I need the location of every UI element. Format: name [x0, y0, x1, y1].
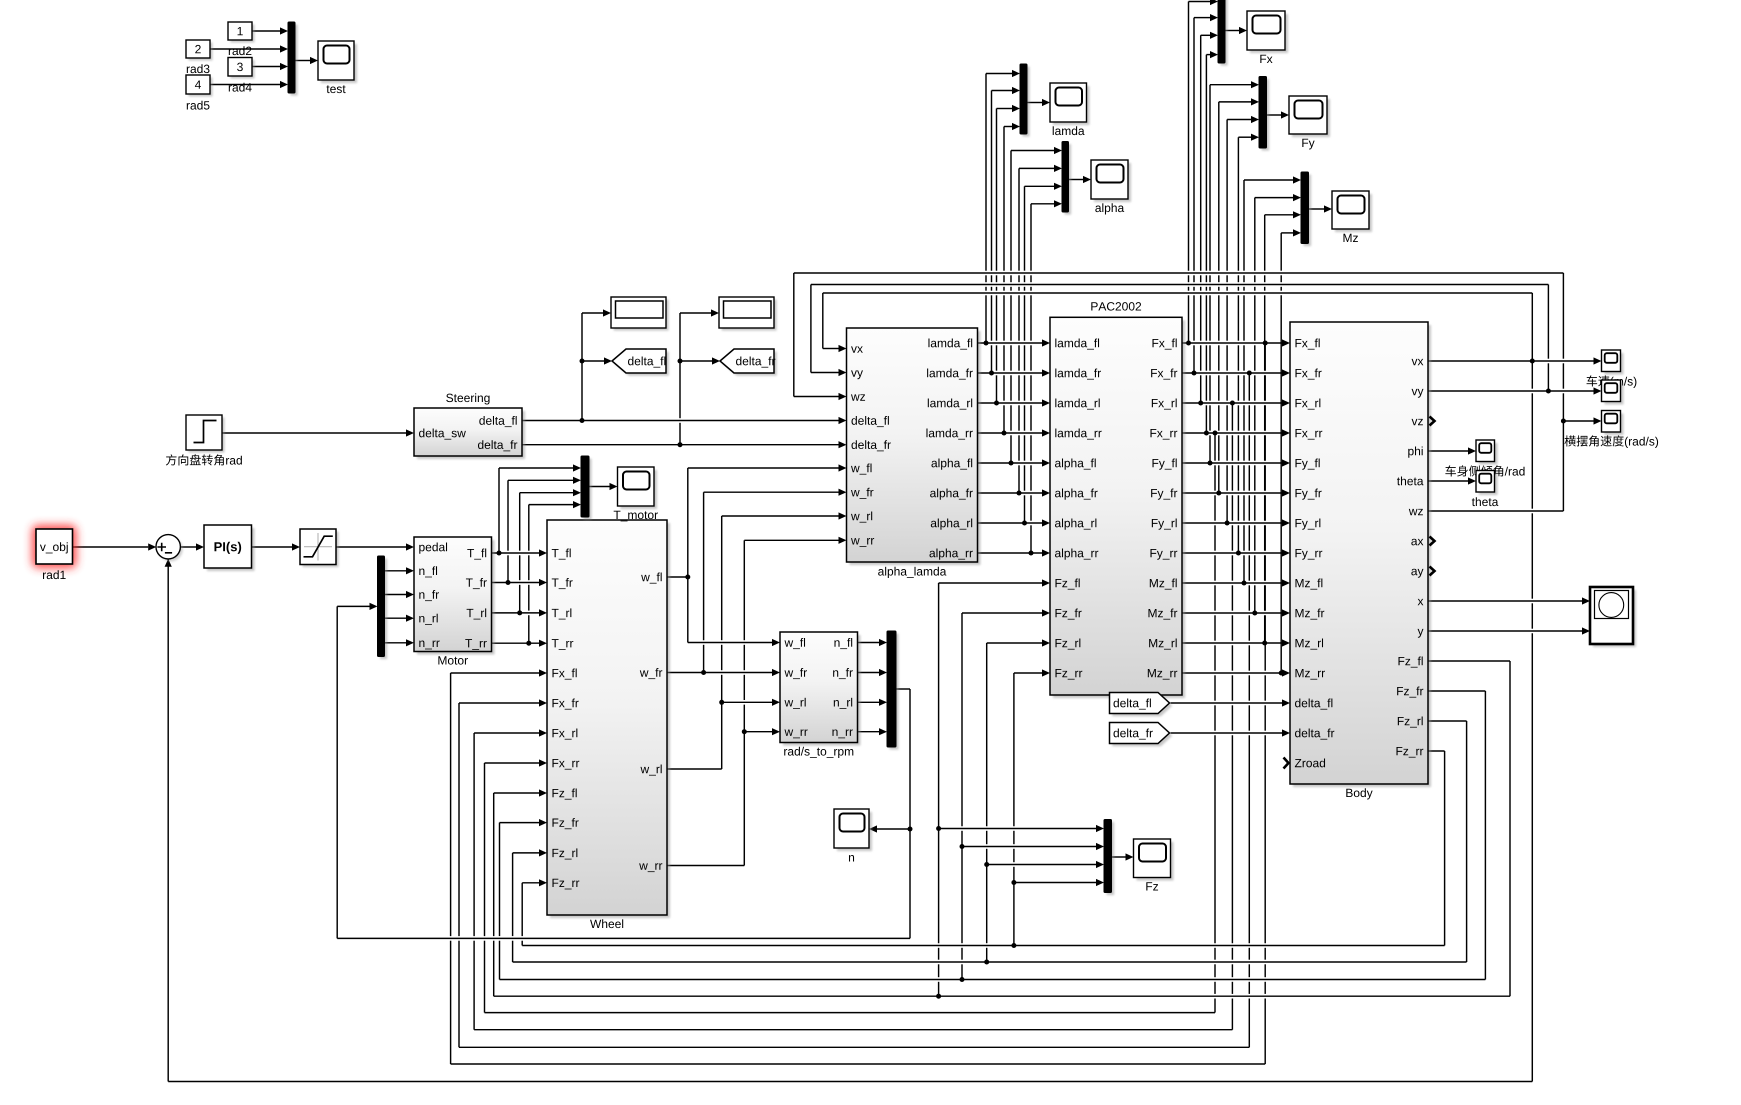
scope n: [834, 809, 872, 862]
wire Body.x -> XY Graph input 1: [1428, 597, 1590, 604]
wire Mux test -> Scope test: [295, 57, 318, 64]
wire net Fx_fl: PAC2002.Fx_fl -> Body.Fx_fl / Mux Fx / Wheel.Fx_fl: [451, 0, 1290, 1064]
scope Mz: [1332, 191, 1372, 242]
wire net wz: Body.wz -> Scope yaw rate / alpha_lamda.wz: [794, 273, 1602, 511]
label 横摆角速度(rad/s) for yaw-rate scope: [1564, 435, 1658, 448]
wire net lamda_fr: alpha_lamda.lamda_fr -> PAC2002.lamda_fr / Mux lamda: [978, 87, 1051, 377]
mux Fy: [1259, 77, 1269, 151]
saturation block: [300, 529, 339, 567]
wire Sum -> PI(s): [180, 543, 204, 550]
wire net lamda_rl: alpha_lamda.lamda_rl -> PAC2002.lamda_rl / Mux lamda: [978, 105, 1051, 407]
wire net w_rr: Wheel.w_rr -> alpha_lamda.w_rr / rad/s_to_rpm.w_rr: [667, 537, 847, 866]
wire net n: Mux rpm -> Scope n / Demux (Motor speed feedback): [337, 603, 912, 939]
wire Constant rad5 (4) -> Mux test input 4: [210, 81, 288, 88]
wire Constant v_obj -> Sum: [73, 543, 157, 550]
mux Mz: [1301, 172, 1311, 246]
subsystem Body: [1290, 322, 1431, 799]
unconnected output port marker vz: [1430, 417, 1435, 426]
display block (delta_fr): [719, 297, 777, 331]
wire net w_fl: Wheel.w_fl -> alpha_lamda.w_fl / rad/s_to_rpm.w_fl: [667, 464, 847, 646]
wire net vx: Body.vx -> Scope vx / alpha_lamda.vx / Sum (speed feedback): [165, 293, 1602, 1082]
wire net Fz_fl: Body.Fz_fl -> Wheel.Fz_fl / PAC2002.Fz_fl / Mux Fz: [494, 579, 1510, 998]
scope vx (speed m/s): [1602, 350, 1624, 375]
mux Fx: [1218, 0, 1228, 66]
wire rad/s_to_rpm.n_fl -> Mux rpm: [858, 639, 888, 646]
subsystem Motor: [414, 537, 495, 665]
wire Mux Fy -> Scope Fy: [1267, 111, 1290, 118]
wire net alpha_fl: alpha_lamda.alpha_fl -> PAC2002.alpha_fl / Mux alpha: [978, 147, 1063, 467]
wire Body.phi -> Scope roll angle: [1428, 447, 1476, 454]
wire net alpha_rr: alpha_lamda.alpha_rr -> PAC2002.alpha_rr / Mux alpha: [978, 200, 1063, 556]
wire net lamda_rr: alpha_lamda.lamda_rr -> PAC2002.lamda_rr / Mux lamda: [978, 123, 1051, 437]
mux Fz: [1104, 820, 1114, 896]
wire net T_fr: Motor.T_fr -> Wheel.T_fr / Mux T_motor: [492, 477, 582, 586]
wire net Fx_fr: PAC2002.Fx_fr -> Body.Fx_fr / Mux Fx / Wheel.Fx_fr: [459, 14, 1290, 1047]
wire Constant rad2 (1) -> Mux test input 1: [252, 27, 288, 34]
wire Body.y -> XY Graph input 2: [1428, 627, 1590, 634]
wire Mux lamda -> Scope lamda: [1027, 99, 1050, 106]
scope phi (roll angle): [1476, 440, 1498, 465]
wire net Fx_rl: PAC2002.Fx_rl -> Body.Fx_rl / Mux Fx / Wheel.Fx_rl: [474, 32, 1290, 1030]
wire rad/s_to_rpm.n_fr -> Mux rpm: [858, 669, 888, 676]
mux test: [288, 22, 298, 96]
scope wz (yaw rate): [1602, 411, 1624, 436]
mux T_motor: [581, 456, 592, 520]
scope lamda: [1050, 83, 1090, 135]
wire net Mz_fr: PAC2002.Mz_fr -> Body.Mz_fr / Mux Mz: [1182, 194, 1301, 617]
from tag delta_fl: [1110, 693, 1173, 717]
wire net w_fr: Wheel.w_fr -> alpha_lamda.w_fr / rad/s_to_rpm.w_fr: [667, 489, 847, 676]
subsystem Wheel: [547, 520, 670, 928]
wire Demux out 2 -> Motor.n_fr: [385, 591, 415, 598]
wire PI(s) -> Saturation: [252, 543, 301, 550]
scope theta: [1476, 471, 1498, 496]
wire net alpha_fr: alpha_lamda.alpha_fr -> PAC2002.alpha_fr / Mux alpha: [978, 165, 1063, 497]
scope Fx: [1247, 11, 1288, 63]
label theta: [1472, 497, 1499, 506]
mux Demux motor n: [378, 556, 388, 659]
wire net w_rl: Wheel.w_rl -> alpha_lamda.w_rl / rad/s_to_rpm.w_rl: [667, 512, 847, 769]
wire net Mz_rl: PAC2002.Mz_rl -> Body.Mz_rl / Mux Mz: [1182, 211, 1301, 646]
wire Mux T_motor -> Scope T_motor: [589, 483, 618, 490]
unconnected input port marker Zroad: [1284, 758, 1289, 769]
wire net delta_fr: Steering.delta_fr -> alpha_lamda.delta_fr, Display2, Goto delta_fr: [522, 309, 847, 448]
mux alpha: [1062, 142, 1071, 215]
wire Constant rad4 (3) -> Mux test input 3: [252, 63, 288, 70]
wire Mux alpha -> Scope alpha: [1069, 176, 1092, 183]
goto tag delta_fl: [612, 349, 669, 376]
display block (delta_fl): [611, 297, 669, 331]
wire Body.theta -> Scope theta: [1428, 477, 1476, 484]
constant block rad5 (value 4): [186, 75, 213, 110]
wire net Fx_rr: PAC2002.Fx_rr -> Body.Fx_rr / Mux Fx / Wheel.Fx_rr: [485, 51, 1291, 1013]
PI(s) controller block: [204, 525, 255, 571]
mux rpm n: [887, 631, 899, 750]
wire net Fy_fl: PAC2002.Fy_fl -> Body.Fy_fl / Mux Fy: [1182, 81, 1290, 467]
constant block rad1 (v_obj), selected with red glow: [32, 525, 77, 579]
sum block (+/-): [156, 535, 183, 562]
wire Demux out 3 -> Motor.n_rl: [385, 615, 415, 622]
wire net T_rl: Motor.T_rl -> Wheel.T_rl / Mux T_motor: [492, 489, 582, 616]
subsystem alpha_lamda: [847, 328, 981, 578]
mux lamda: [1020, 64, 1030, 137]
wire Mux Mz -> Scope Mz: [1309, 205, 1333, 212]
wire net vy: Body.vy -> Scope vy / alpha_lamda.vy: [811, 285, 1602, 395]
unconnected output port marker ax: [1430, 537, 1435, 546]
scope alpha: [1091, 160, 1131, 214]
scope Fz: [1134, 839, 1174, 891]
wire Constant rad3 (2) -> Mux test input 2: [210, 45, 288, 52]
wire net T_rr: Motor.T_rr -> Wheel.T_rr / Mux T_motor: [492, 501, 582, 647]
wire Mux Fz -> Scope Fz: [1112, 853, 1134, 860]
wire rad/s_to_rpm.n_rr -> Mux rpm: [858, 728, 888, 735]
subsystem PAC2002: [1050, 302, 1185, 698]
constant block rad3 (value 2): [186, 40, 213, 73]
wire Saturation -> Motor.pedal: [336, 543, 414, 550]
wire net delta_fl: Steering.delta_fl -> alpha_lamda.delta_fl, Display1, Goto delta_fl: [522, 309, 847, 424]
wire From delta_fl -> Body.delta_fl: [1171, 699, 1291, 706]
wire net Fy_fr: PAC2002.Fy_fr -> Body.Fy_fr / Mux Fy: [1182, 98, 1290, 496]
wire net Fz_rl: Body.Fz_rl -> Wheel.Fz_rl / PAC2002.Fz_rl / Mux Fz: [513, 639, 1467, 964]
wire rad/s_to_rpm.n_rl -> Mux rpm: [858, 699, 888, 706]
wire net Mz_fl: PAC2002.Mz_fl -> Body.Mz_fl / Mux Mz: [1182, 176, 1301, 586]
unconnected output port marker ay: [1430, 567, 1435, 576]
label 车身侧倾角/rad for roll scope: [1445, 465, 1524, 476]
wire From delta_fr -> Body.delta_fr: [1171, 729, 1291, 736]
wire net Fz_rr: Body.Fz_rr -> Wheel.Fz_rr / PAC2002.Fz_rr / Mux Fz: [522, 669, 1444, 948]
constant block rad4 (value 3): [228, 58, 255, 92]
wire Mux Fx -> Scope Fx: [1225, 27, 1247, 34]
wire net T_fl: Motor.T_fl -> Wheel.T_fl / Mux T_motor: [492, 464, 582, 556]
XY Graph block: [1590, 587, 1636, 647]
wire net alpha_rl: alpha_lamda.alpha_rl -> PAC2002.alpha_rl / Mux alpha: [978, 183, 1063, 527]
wire net Fy_rr: PAC2002.Fy_rr -> Body.Fy_rr / Mux Fy: [1182, 134, 1290, 557]
scope Fy: [1289, 96, 1330, 149]
wire Demux out 1 -> Motor.n_fl: [385, 567, 415, 574]
wire net Mz_rr: PAC2002.Mz_rr -> Body.Mz_rr / Mux Mz: [1182, 229, 1301, 676]
scope T_motor: [614, 467, 658, 521]
wire net lamda_fl: alpha_lamda.lamda_fl -> PAC2002.lamda_fl / Mux lamda: [978, 70, 1051, 347]
from tag delta_fr: [1110, 723, 1173, 747]
wire net Fz_fr: Body.Fz_fr -> Wheel.Fz_fr / PAC2002.Fz_fr / Mux Fz: [500, 609, 1486, 982]
wire net Fy_rl: PAC2002.Fy_rl -> Body.Fy_rl / Mux Fy: [1182, 116, 1290, 527]
subsystem Steering: [414, 393, 525, 459]
step source block 方向盘转角rad: [186, 415, 225, 453]
scope test: [318, 41, 357, 93]
goto tag delta_fr: [720, 349, 777, 376]
constant block rad2 (value 1): [228, 22, 255, 55]
wire Step -> Steering.delta_sw: [222, 429, 414, 436]
label 车速(m/s) for scope vx: [1587, 375, 1637, 388]
subsystem rad/s_to_rpm: [780, 632, 861, 758]
wire Demux out 4 -> Motor.n_rr: [385, 639, 415, 646]
scope vy: [1602, 380, 1624, 405]
